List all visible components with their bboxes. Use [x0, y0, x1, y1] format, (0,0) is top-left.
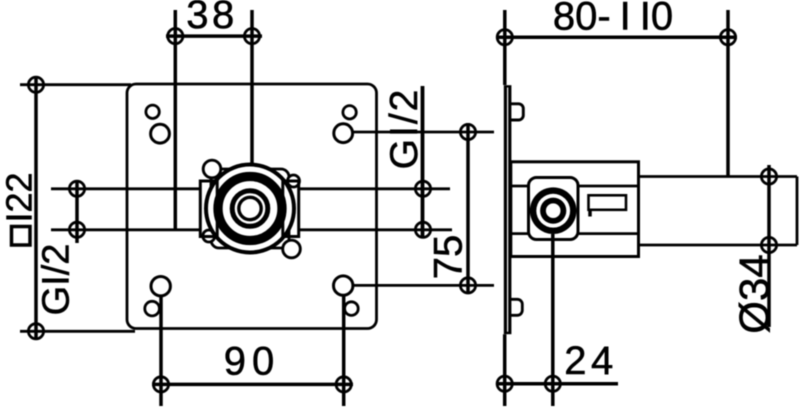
dimension 122 bottom extension: [20, 330, 135, 333]
plate hole bottom-left small: [145, 301, 160, 316]
plate hole top-right big: [334, 124, 353, 143]
dimension 34 top dot: [761, 169, 776, 184]
svg-text:Ø34: Ø34: [731, 254, 778, 333]
valve middle ring: [232, 191, 268, 227]
svg-text:GI/2: GI/2: [36, 244, 78, 316]
dimension 75 bottom dot: [460, 278, 475, 293]
valve body side view: [511, 162, 639, 257]
svg-text:38: 38: [186, 0, 238, 37]
dimension 80-110 right extension: [726, 10, 730, 177]
body internal bottom line right: [578, 232, 639, 235]
dimension 38 line: [166, 34, 262, 38]
pipe top line: [639, 175, 798, 178]
pipe bottom line: [639, 244, 798, 247]
dimension 38 left extension: [174, 10, 178, 231]
valve ear screw top-right: [288, 175, 300, 187]
leader line bottom holes: [353, 284, 494, 287]
dimension 38 right dot: [244, 28, 259, 43]
screw boss side view: [529, 178, 579, 240]
wall plate side view: [504, 85, 512, 334]
dimension 122 line: [34, 76, 38, 340]
dimension 90 line: [152, 383, 353, 387]
dimension 80-110 left extension: [503, 10, 507, 85]
dimension 122 top dot: [28, 77, 43, 92]
left port top dot: [69, 181, 84, 196]
dimension 80-110 right dot: [720, 30, 735, 45]
dimension 122 bottom dot: [28, 324, 43, 339]
svg-text:75: 75: [426, 235, 470, 280]
stop detail rectangle: [589, 195, 627, 210]
plate hole bottom-right big: [334, 276, 353, 295]
wall plate inner face line: [507, 88, 509, 332]
plate hole top-left small: [146, 105, 159, 118]
valve right tab: [283, 181, 299, 237]
right port top dot: [415, 181, 430, 196]
pipe end cap: [796, 177, 799, 246]
dimension 75 line: [466, 123, 470, 294]
screw white ring: [536, 194, 570, 228]
screw black ring: [540, 198, 566, 224]
stop detail stub: [588, 210, 592, 217]
right port bottom line: [299, 228, 452, 231]
dimension 90 right dot: [336, 377, 351, 392]
plate hole bottom-right small: [345, 302, 359, 316]
valve inner ring: [239, 197, 261, 219]
leader line top holes: [353, 131, 495, 134]
mounting plate front view: [127, 84, 377, 329]
dimension 122 top extension: [20, 83, 131, 86]
dimension 24 right dot: [545, 376, 560, 391]
dimension 34 bottom dot: [761, 237, 776, 252]
dimension 24 line: [496, 382, 618, 386]
valve outer circle: [206, 165, 294, 253]
svg-text:GI/2: GI/2: [383, 88, 426, 170]
svg-text:90: 90: [224, 340, 281, 384]
dimension 24 left extension: [503, 334, 507, 406]
valve ear screw top-left: [203, 160, 221, 178]
left port bottom dot: [69, 222, 84, 237]
left port dimension line: [75, 181, 79, 243]
svg-text:80-II0: 80-II0: [553, 0, 673, 39]
right port top line: [299, 187, 450, 190]
valve left tab: [200, 181, 217, 237]
dimension 80-110 left dot: [497, 30, 512, 45]
plate hole top-right small: [343, 106, 356, 119]
plate hole bottom-left big: [151, 277, 170, 296]
svg-text:I22: I22: [0, 172, 40, 222]
screw center hole: [546, 203, 561, 218]
valve ear screw bottom-left: [203, 230, 215, 242]
screw outer disk: [530, 187, 577, 234]
dimension 24 left dot: [497, 376, 512, 391]
svg-text:24: 24: [564, 339, 618, 383]
dimension 38 right extension: [250, 10, 254, 163]
body internal top line left: [511, 185, 529, 188]
body internal top line right: [578, 185, 639, 188]
dimension 90 left dot: [153, 377, 168, 392]
dimension 90 left extension: [159, 297, 163, 407]
dimension 38 left dot: [168, 28, 183, 43]
dimension diameter 34 line: [767, 165, 771, 327]
right port bottom dot: [415, 222, 430, 237]
square symbol of 122 label: [12, 227, 31, 246]
dimension 80-110 line: [496, 35, 737, 39]
plate hole top-left big: [151, 124, 170, 143]
right port dimension line: [421, 86, 425, 238]
dimension 24 right extension screw axis: [551, 234, 555, 406]
left port top line: [51, 187, 201, 190]
wall plate top tab: [511, 104, 523, 120]
left port bottom line: [51, 228, 201, 231]
valve ear screw bottom-right: [283, 240, 301, 258]
dimension 75 top dot: [460, 124, 475, 139]
valve thick ring: [218, 177, 282, 241]
valve flange square: [211, 169, 289, 248]
wall plate bottom tab: [511, 299, 523, 315]
body internal bottom line left: [511, 232, 529, 235]
dimension 90 right extension: [342, 296, 346, 406]
